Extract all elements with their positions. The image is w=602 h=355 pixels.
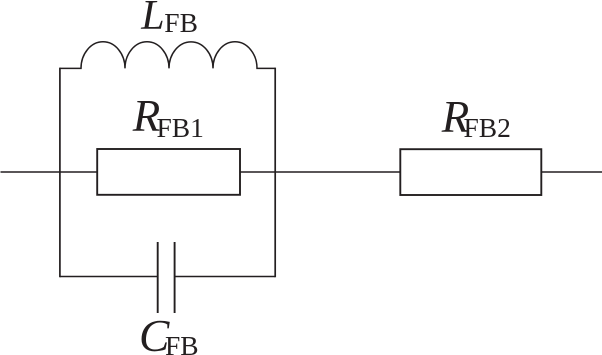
svg-text:L: L (140, 0, 164, 39)
svg-text:FB: FB (165, 330, 199, 355)
svg-text:FB2: FB2 (464, 112, 511, 143)
svg-text:FB1: FB1 (157, 112, 204, 143)
svg-text:FB: FB (164, 7, 198, 38)
